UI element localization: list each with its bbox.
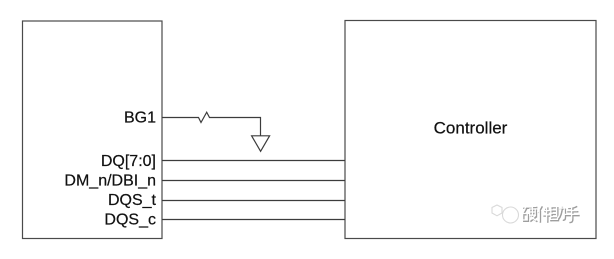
wire BG1 with series break squiggle — [162, 112, 261, 136]
wire DM_n/DBI_n — [162, 180, 345, 182]
wire DQ[7:0] — [162, 160, 345, 162]
wire DQS_c — [162, 219, 345, 221]
svg-text:DQS_t: DQS_t — [108, 192, 157, 209]
svg-text:DQ[7:0]: DQ[7:0] — [101, 153, 156, 170]
svg-text:DM_n/DBI_n: DM_n/DBI_n — [64, 172, 156, 189]
watermark text 硬件助手 (drawn strokes, embossed) — [523, 206, 580, 222]
DRAM device box — [23, 21, 163, 239]
watermark icon (faint hex-nut + circle logo) — [492, 205, 519, 223]
termination triangle (down arrow) — [252, 136, 270, 152]
Controller box U2 — [345, 21, 596, 239]
svg-text:DQS_c: DQS_c — [104, 212, 156, 229]
svg-text:BG1: BG1 — [124, 109, 156, 126]
wire DQS_t — [162, 200, 345, 202]
svg-text:Controller: Controller — [434, 118, 508, 137]
